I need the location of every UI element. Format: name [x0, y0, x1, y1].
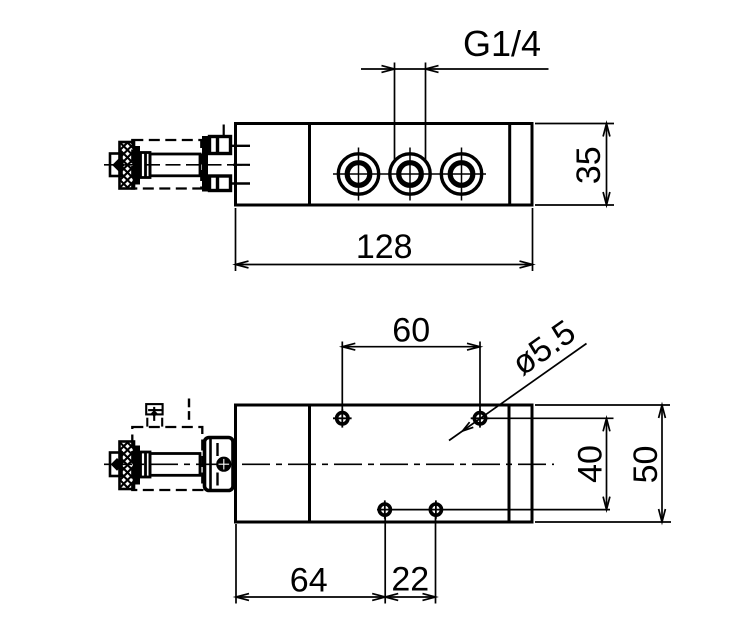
pilot cross dot [151, 410, 158, 417]
arrow head right-pointing [382, 66, 395, 73]
solenoid dashed outline (bottom view) [132, 427, 202, 490]
main centerline (bottom view) [104, 463, 554, 465]
mounting hole top-right [471, 409, 490, 428]
extension line bottom [535, 204, 614, 206]
valve body (top view) [236, 124, 533, 206]
extension line top [535, 123, 614, 125]
extension line top [535, 404, 670, 406]
dimension 40 [489, 418, 614, 509]
arrow head left-pointing [426, 66, 439, 73]
knurled knob (bottom view) [120, 442, 141, 490]
arrow head left [236, 261, 249, 268]
mounting hole top-left [333, 409, 352, 428]
port circle 1 [338, 148, 378, 201]
arrow head left [342, 343, 355, 350]
svg-text:50: 50 [627, 446, 665, 484]
arrow head down [603, 192, 610, 205]
arrow head right [467, 343, 480, 350]
dimension line [606, 124, 608, 206]
dimension 50 [535, 405, 671, 522]
bottom holes line / 40 lower extension [377, 509, 610, 511]
pivot dot (bottom view) [111, 458, 124, 471]
svg-text:60: 60 [392, 312, 430, 350]
extension line right [532, 208, 534, 271]
arrow head up [603, 124, 610, 137]
knob collar (top view) [141, 153, 151, 178]
dimension line [236, 596, 436, 598]
mounting bracket housing (bottom view) [205, 438, 234, 491]
bracket pivot ball (bottom view) [216, 457, 231, 472]
arrow head left (22) [385, 594, 398, 601]
svg-text:22: 22 [391, 560, 429, 598]
extension line right [425, 63, 427, 161]
dimension line [236, 264, 533, 266]
stem shaft (top view) [150, 154, 200, 176]
manual override end bracket (bottom view) [110, 453, 122, 477]
svg-text:40: 40 [572, 445, 610, 483]
svg-text:35: 35 [570, 146, 608, 184]
dashed pin line (bottom view) [188, 399, 190, 420]
extension line right [479, 342, 481, 412]
extension line top (from hole to right) [489, 417, 614, 419]
extension line left [235, 208, 237, 271]
knurled knob (top view) [120, 142, 141, 189]
lower clamp (top view) [210, 176, 231, 191]
pilot port square (bottom view) [146, 404, 162, 421]
arrow head down [659, 509, 666, 522]
dimension 35 [535, 124, 614, 206]
mounting bracket bar (top view) [202, 136, 208, 192]
arrow head up [659, 405, 666, 418]
extension line left [235, 524, 237, 604]
extension line middle [384, 517, 386, 604]
solenoid dashed outline (top view) [132, 140, 201, 189]
dimension 128 [236, 208, 533, 271]
internal division line right [508, 405, 511, 522]
arrow head right (64) [372, 594, 385, 601]
svg-text:128: 128 [356, 228, 413, 266]
arrow head up [603, 418, 610, 431]
dimension G1/4 line [361, 63, 549, 161]
arrow head right [520, 261, 533, 268]
pivot diamond (top view) [112, 159, 125, 172]
extension line left [341, 342, 343, 413]
internal division line right [508, 124, 511, 206]
clamp stub line upper (top view) [231, 145, 251, 147]
clamp stub line lower (top view) [231, 182, 251, 184]
internal division line left [308, 124, 311, 206]
mounting hole bottom-right [430, 500, 441, 518]
pilot square legs [147, 418, 162, 427]
svg-text:G1/4: G1/4 [463, 23, 541, 64]
extension line bottom [535, 521, 671, 523]
dimension 64 and 22 [236, 517, 436, 604]
internal division line left [308, 405, 311, 522]
manual override end bracket (top view) [110, 154, 122, 177]
port circle 2 [390, 148, 430, 201]
dimension line [342, 346, 480, 348]
leader line for diameter 5.5 [449, 344, 587, 441]
arrow head right (22) [423, 594, 436, 601]
dimension line [606, 418, 608, 509]
arrow head down [603, 497, 610, 510]
valve body (bottom view) [236, 405, 533, 522]
dimension line [661, 405, 663, 522]
bracket pin line (top view) [223, 125, 225, 136]
dimension 60 [342, 342, 480, 413]
extension line left [394, 63, 396, 161]
upper clamp (top view) [210, 137, 231, 154]
extension line right [435, 517, 437, 604]
mounting hole bottom-left [379, 500, 390, 518]
port circle 3 [441, 148, 481, 201]
arrow head left (64) [236, 594, 249, 601]
stem shaft (bottom view) [150, 454, 200, 476]
actuator centerline (top view) [104, 164, 250, 166]
centerline stub into body (top view) [233, 164, 250, 166]
svg-text:64: 64 [290, 561, 328, 599]
knob collar (bottom view) [141, 452, 151, 477]
ports horizontal centerline [333, 173, 486, 175]
leader arrow head [463, 422, 474, 431]
